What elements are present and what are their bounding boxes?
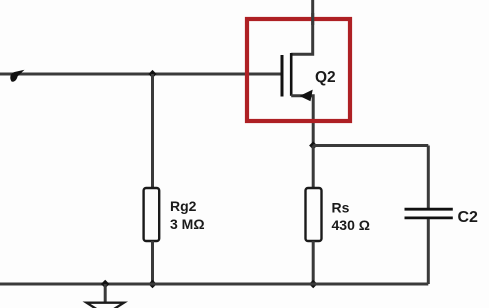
resistor Rs — [306, 188, 322, 241]
svg-text:Rg2: Rg2 — [170, 198, 197, 214]
wire (Rg2 bottom lead) — [151, 241, 154, 284]
svg-text:Rs: Rs — [332, 200, 350, 216]
wire (junction to Rs top) — [312, 146, 315, 189]
wire (ground rail) — [0, 283, 428, 286]
transistor Q2 (JFET symbol) — [282, 53, 313, 146]
node (source junction to Rs and C2) — [309, 141, 317, 149]
gate bar — [281, 55, 284, 97]
wire (junction to C2 branch, horizontal) — [313, 144, 428, 147]
wire (drain lead crossing over red box top edge) — [311, 13, 314, 25]
resistor Rg2 — [144, 188, 160, 241]
capacitor C2 — [405, 209, 453, 218]
wire (gate wire from left edge) — [0, 73, 281, 76]
node (Rs to ground rail) — [309, 280, 318, 289]
wire (C2 bottom lead) — [427, 219, 430, 284]
source arrowhead — [300, 90, 313, 102]
wire (C2 top lead) — [427, 146, 430, 209]
node (junction of gate wire and Rg2 branch) — [148, 70, 156, 78]
svg-text:C2: C2 — [458, 209, 479, 226]
wire (Rg2 top lead) — [151, 74, 154, 189]
svg-text:3 MΩ: 3 MΩ — [170, 216, 205, 232]
wire (drain lead from top edge down into transistor) — [291, 0, 313, 54]
red highlight box around Q2 — [247, 19, 350, 121]
input terminal arrow — [10, 70, 24, 82]
node (Rg2 to ground rail) — [148, 280, 157, 289]
svg-text:430 Ω: 430 Ω — [332, 217, 370, 233]
source lead — [291, 96, 313, 146]
svg-text:Q2: Q2 — [315, 69, 336, 86]
node (ground stub junction) — [101, 280, 110, 289]
channel line — [290, 53, 293, 96]
wire (Rs bottom lead) — [312, 241, 315, 284]
ground — [87, 284, 125, 308]
